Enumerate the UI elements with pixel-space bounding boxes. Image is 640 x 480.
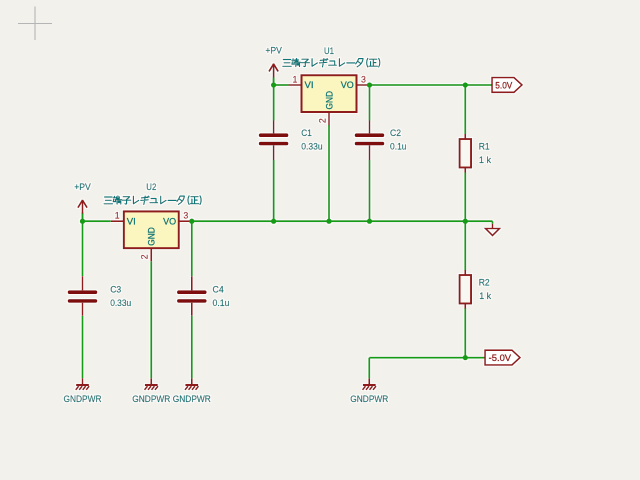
- svg-text:0.33u: 0.33u: [301, 141, 322, 152]
- svg-text:VI: VI: [127, 216, 136, 227]
- svg-text:2: 2: [317, 118, 327, 123]
- svg-text:R2: R2: [479, 278, 490, 289]
- svg-text:C4: C4: [213, 284, 225, 295]
- svg-text:0.33u: 0.33u: [110, 298, 131, 309]
- svg-text:VO: VO: [341, 80, 354, 91]
- svg-text:U1: U1: [324, 46, 334, 57]
- svg-text:1 k: 1 k: [479, 291, 491, 302]
- svg-text:1: 1: [115, 211, 120, 221]
- svg-text:R1: R1: [479, 141, 490, 152]
- svg-text:C1: C1: [301, 128, 312, 139]
- svg-text:GND: GND: [147, 227, 158, 246]
- svg-text:0.1u: 0.1u: [213, 298, 230, 309]
- svg-text:GNDPWR: GNDPWR: [132, 394, 170, 405]
- svg-text:U2: U2: [146, 182, 156, 193]
- svg-text:VO: VO: [163, 216, 176, 227]
- svg-text:GNDPWR: GNDPWR: [64, 394, 102, 405]
- svg-text:VI: VI: [305, 80, 314, 91]
- svg-text:3: 3: [361, 74, 366, 84]
- svg-text:GND: GND: [324, 91, 335, 110]
- svg-text:1: 1: [292, 74, 297, 84]
- svg-text:GNDPWR: GNDPWR: [350, 394, 388, 405]
- svg-text:C2: C2: [390, 128, 401, 139]
- svg-text:1 k: 1 k: [479, 155, 491, 166]
- svg-text:C3: C3: [110, 285, 121, 296]
- svg-text:-5.0V: -5.0V: [489, 353, 512, 364]
- svg-text:5.0V: 5.0V: [495, 81, 513, 92]
- svg-text:+PV: +PV: [74, 182, 91, 193]
- svg-text:+PV: +PV: [265, 46, 282, 57]
- svg-text:3: 3: [183, 211, 188, 221]
- svg-text:GNDPWR: GNDPWR: [173, 394, 211, 405]
- svg-text:0.1u: 0.1u: [390, 141, 407, 152]
- svg-text:2: 2: [140, 254, 150, 259]
